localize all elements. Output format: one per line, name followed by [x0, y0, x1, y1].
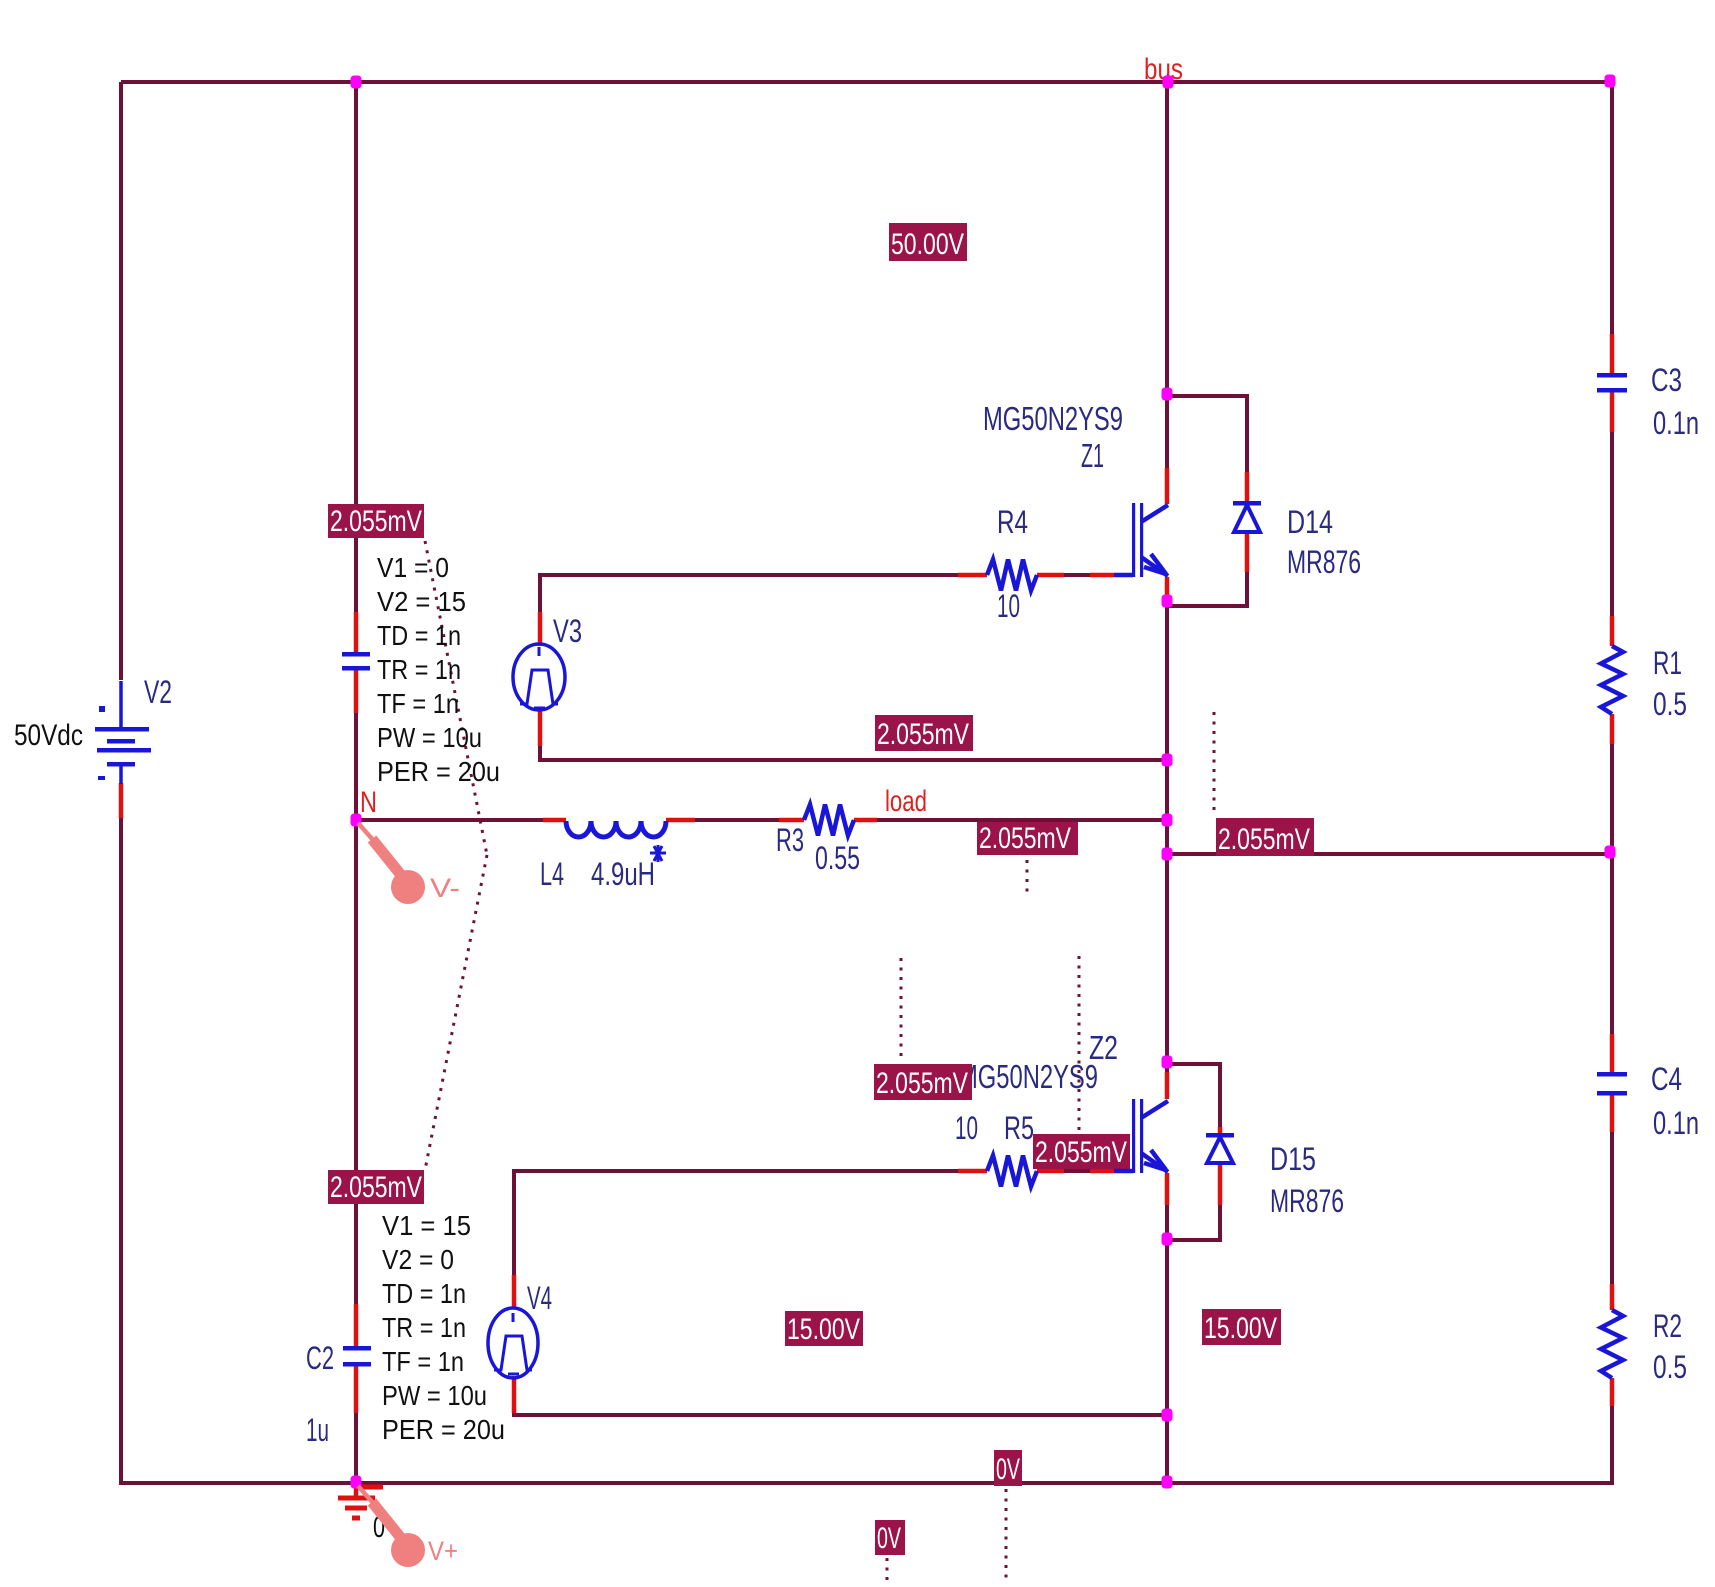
svg-text:PER = 20u: PER = 20u	[382, 1414, 505, 1445]
svg-text:TR = 1n: TR = 1n	[382, 1312, 466, 1343]
svg-text:2.055mV: 2.055mV	[979, 822, 1071, 855]
svg-text:0.5: 0.5	[1653, 686, 1687, 722]
svg-text:load: load	[885, 785, 927, 818]
svg-text:15.00V: 15.00V	[1204, 1312, 1277, 1345]
svg-text:V4: V4	[527, 1280, 552, 1316]
svg-text:V+: V+	[428, 1536, 458, 1566]
svg-text:2.055mV: 2.055mV	[877, 718, 969, 751]
svg-text:V1 = 0: V1 = 0	[377, 552, 449, 583]
svg-text:MG50N2YS9: MG50N2YS9	[958, 1058, 1098, 1095]
svg-text:0.1n: 0.1n	[1653, 405, 1699, 441]
svg-text:TF = 1n: TF = 1n	[377, 688, 459, 719]
svg-text:V2 = 15: V2 = 15	[377, 586, 466, 617]
svg-text:PW = 10u: PW = 10u	[382, 1380, 487, 1411]
svg-text:50Vdc: 50Vdc	[14, 719, 83, 752]
svg-text:R1: R1	[1653, 645, 1682, 681]
svg-text:C4: C4	[1651, 1061, 1682, 1097]
svg-text:MG50N2YS9: MG50N2YS9	[983, 400, 1123, 437]
svg-text:D15: D15	[1270, 1141, 1316, 1177]
svg-text:L4: L4	[540, 856, 564, 892]
svg-text:0.55: 0.55	[815, 840, 860, 876]
svg-text:50.00V: 50.00V	[891, 228, 964, 261]
svg-text:V1 = 15: V1 = 15	[382, 1210, 471, 1241]
svg-text:4.9uH: 4.9uH	[591, 856, 655, 892]
svg-text:R3: R3	[776, 822, 804, 858]
svg-text:2.055mV: 2.055mV	[330, 505, 422, 538]
svg-text:TR = 1n: TR = 1n	[377, 654, 461, 685]
svg-text:PER = 20u: PER = 20u	[377, 756, 500, 787]
svg-text:V2 = 0: V2 = 0	[382, 1244, 454, 1275]
svg-text:PW = 10u: PW = 10u	[377, 722, 482, 753]
svg-text:2.055mV: 2.055mV	[1218, 823, 1310, 856]
svg-text:TD = 1n: TD = 1n	[382, 1278, 466, 1309]
svg-text:10: 10	[955, 1110, 978, 1146]
svg-text:R4: R4	[997, 504, 1028, 540]
svg-text:1u: 1u	[306, 1412, 329, 1448]
svg-text:MR876: MR876	[1287, 544, 1361, 580]
svg-text:TD = 1n: TD = 1n	[377, 620, 461, 651]
svg-text:0.1n: 0.1n	[1653, 1105, 1699, 1141]
svg-text:D14: D14	[1287, 504, 1333, 540]
svg-text:N: N	[360, 786, 377, 819]
svg-text:TF = 1n: TF = 1n	[382, 1346, 464, 1377]
svg-text:2.055mV: 2.055mV	[330, 1171, 422, 1204]
svg-text:2.055mV: 2.055mV	[1035, 1136, 1127, 1169]
svg-text:R2: R2	[1653, 1308, 1682, 1344]
svg-text:0.5: 0.5	[1653, 1349, 1687, 1385]
svg-text:V3: V3	[553, 613, 582, 649]
svg-text:C3: C3	[1651, 362, 1682, 398]
svg-text:0V: 0V	[996, 1453, 1020, 1486]
svg-text:Z1: Z1	[1081, 437, 1104, 474]
svg-text:0V: 0V	[877, 1522, 901, 1555]
svg-text:MR876: MR876	[1270, 1183, 1344, 1219]
svg-text:V-: V-	[430, 873, 460, 903]
svg-text:V2: V2	[144, 674, 172, 710]
svg-text:R5: R5	[1004, 1110, 1034, 1146]
svg-text:2.055mV: 2.055mV	[876, 1067, 968, 1100]
svg-text:C2: C2	[306, 1340, 334, 1376]
svg-text:10: 10	[997, 588, 1020, 624]
svg-text:15.00V: 15.00V	[787, 1313, 860, 1346]
